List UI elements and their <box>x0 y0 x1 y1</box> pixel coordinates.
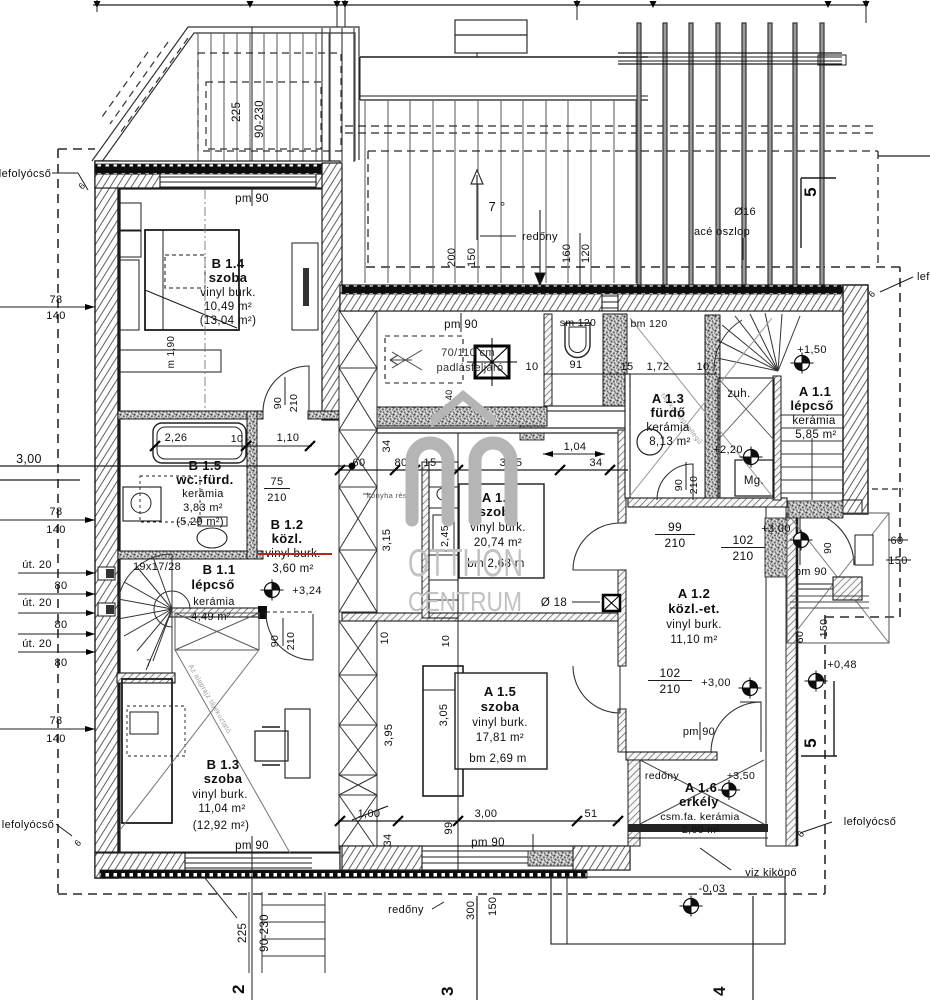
porch X diagonals <box>787 513 889 643</box>
svg-text:A 1.1: A 1.1 <box>799 384 831 399</box>
svg-text:90: 90 <box>272 397 284 409</box>
svg-text:10: 10 <box>697 361 710 373</box>
svg-text:78: 78 <box>50 715 63 727</box>
wall A bottom <box>340 846 630 870</box>
svg-text:lefolyócső: lefolyócső <box>844 816 896 828</box>
svg-text:bm 120: bm 120 <box>630 318 667 330</box>
steel column O18 <box>603 595 620 611</box>
dresser B1.4 <box>119 350 221 372</box>
svg-text:225: 225 <box>237 923 249 943</box>
wall B interior B1.5/B1.1 <box>118 551 263 559</box>
flue square <box>475 346 509 378</box>
svg-text:300: 300 <box>465 901 477 920</box>
svg-text:11,10 m²: 11,10 m² <box>670 634 717 646</box>
svg-text:m 1,90: m 1,90 <box>166 336 177 369</box>
pergola posts <box>637 23 824 285</box>
svg-text:B 1.4: B 1.4 <box>212 256 245 271</box>
svg-text:redőny: redőny <box>645 770 680 782</box>
svg-text:78: 78 <box>50 506 63 518</box>
svg-text:210: 210 <box>664 536 685 550</box>
washbasin B1.5 <box>123 487 161 521</box>
kitchen counter A1.4 <box>422 462 429 618</box>
svg-text:102: 102 <box>732 533 753 547</box>
svg-text:szoba: szoba <box>204 771 243 786</box>
svg-text:3,15: 3,15 <box>381 529 393 552</box>
wall B top <box>95 161 340 188</box>
svg-text:pm 90: pm 90 <box>471 837 505 849</box>
cabinet B1.3 east <box>285 709 310 778</box>
wall A1.2/balcony <box>626 752 717 760</box>
svg-text:210: 210 <box>267 492 286 504</box>
svg-text:Ø16: Ø16 <box>734 206 756 218</box>
door balcony arc <box>711 702 761 752</box>
balcony left wall <box>628 760 640 846</box>
wall A right outer <box>843 285 868 514</box>
svg-text:B 1.3: B 1.3 <box>207 757 240 772</box>
svg-text:padlásfeljáró: padlásfeljáró <box>437 362 504 374</box>
svg-text:csm.fa. kerámia: csm.fa. kerámia <box>660 811 739 823</box>
svg-text:3,00: 3,00 <box>475 808 498 820</box>
wall B interior bathroom/hall vertical <box>247 411 257 559</box>
balcony bottom rail thick <box>628 824 768 832</box>
svg-text:zuh.: zuh. <box>727 388 750 400</box>
fixtures B1.3 dashed <box>127 706 185 756</box>
svg-text:lef: lef <box>917 271 930 283</box>
A1.5 label frame <box>455 673 547 769</box>
middle terrace deck stripes <box>365 100 636 283</box>
svg-text:15: 15 <box>424 457 437 469</box>
svg-text:140: 140 <box>46 733 65 745</box>
svg-text:4: 4 <box>710 986 729 996</box>
svg-text:150: 150 <box>487 897 499 916</box>
svg-text:közl.: közl. <box>272 531 303 546</box>
svg-text:+3,00: +3,00 <box>701 677 731 689</box>
svg-text:7 °: 7 ° <box>488 199 505 214</box>
svg-text:B 1.1: B 1.1 <box>203 562 236 577</box>
middle terrace dashed outline <box>345 125 878 127</box>
svg-text:11,04 m²: 11,04 m² <box>198 803 245 815</box>
svg-text:(12,92 m²): (12,92 m²) <box>193 820 250 832</box>
middle terrace roof edge <box>360 56 648 58</box>
svg-text:kerámia: kerámia <box>792 415 836 427</box>
svg-text:10: 10 <box>526 361 539 373</box>
svg-text:70/110 cm: 70/110 cm <box>441 347 495 359</box>
svg-text:80: 80 <box>55 657 68 669</box>
short line right <box>878 155 930 157</box>
svg-text:80: 80 <box>55 580 68 592</box>
svg-text:Mg.: Mg. <box>744 475 764 487</box>
svg-text:(5,29 m²): (5,29 m²) <box>176 516 224 528</box>
stair B1.1 spiral fan <box>118 554 190 673</box>
wall A1.4/A1.2 vertical segments <box>618 430 626 523</box>
terrace B roof outline with slanted edge <box>92 27 359 163</box>
svg-text:210: 210 <box>288 394 300 413</box>
table B1.3 <box>255 731 288 761</box>
svg-text:90-230: 90-230 <box>254 100 266 138</box>
balcony X diagonals <box>640 760 764 824</box>
terrace B dashed inner outlines <box>102 38 341 151</box>
bed B1.4 <box>145 230 239 330</box>
terrace B right edge lines <box>322 28 354 162</box>
dashed closet B1.4 <box>165 255 205 288</box>
svg-text:34: 34 <box>590 457 603 469</box>
svg-text:út. 20: út. 20 <box>22 559 52 571</box>
svg-text:10: 10 <box>379 632 391 645</box>
svg-text:5: 5 <box>801 738 820 748</box>
svg-text:lefolyócső: lefolyócső <box>2 819 54 831</box>
top dimension line <box>93 4 868 6</box>
svg-text:viz kiköpő: viz kiköpő <box>745 867 797 879</box>
insulation strip bottom continuous <box>100 870 587 878</box>
plot boundary dashed line <box>58 148 95 150</box>
svg-text:80: 80 <box>55 619 68 631</box>
svg-text:99: 99 <box>668 520 682 534</box>
niche marks left wall <box>98 567 115 580</box>
A1.3 west wall line <box>625 374 630 498</box>
door A1.5 arc <box>573 666 620 713</box>
wall A1.3 bottom / A1.2 top <box>628 498 787 507</box>
svg-text:vinyl burk.: vinyl burk. <box>200 287 256 299</box>
svg-text:4,49 m²: 4,49 m² <box>191 611 231 623</box>
svg-text:3,95: 3,95 <box>383 724 395 747</box>
svg-text:75: 75 <box>271 476 284 488</box>
svg-text:szoba: szoba <box>209 270 248 285</box>
svg-text:kerámia: kerámia <box>182 488 224 500</box>
watermark logo OC <box>412 443 511 520</box>
svg-text:140: 140 <box>46 524 65 536</box>
svg-text:lépcső: lépcső <box>790 398 833 413</box>
svg-text:51: 51 <box>585 808 598 820</box>
svg-text:102: 102 <box>659 666 680 680</box>
watermark roof arrow <box>431 390 496 428</box>
exterior stairs bottom left <box>249 892 325 973</box>
svg-text:200: 200 <box>446 248 458 267</box>
svg-text:3: 3 <box>438 986 457 996</box>
svg-text:OTTHON: OTTHON <box>408 542 523 585</box>
desk B1.3 <box>122 679 172 823</box>
svg-text:A 1.2: A 1.2 <box>678 586 710 601</box>
party wall shaft with X bracing <box>339 310 377 850</box>
strike on 1,00 <box>352 806 388 820</box>
A1.4 label frame <box>459 484 544 578</box>
svg-text:91: 91 <box>570 359 583 371</box>
speckle block below WC <box>520 409 544 440</box>
svg-text:konyha rész: konyha rész <box>367 491 411 500</box>
wall A1.3/shower <box>705 315 720 500</box>
insulation strip B top <box>95 164 338 174</box>
svg-text:acé oszlop: acé oszlop <box>694 226 750 238</box>
svg-text:1,04: 1,04 <box>564 441 587 453</box>
toilet B1.5 <box>197 528 227 548</box>
window band B bottom <box>185 857 312 859</box>
wall B party right upper <box>322 163 342 420</box>
svg-text:pm 90: pm 90 <box>795 566 827 578</box>
terrace below balcony <box>551 877 785 944</box>
wall WC right speckled <box>603 314 627 406</box>
svg-text:60: 60 <box>891 535 904 547</box>
svg-text:15: 15 <box>621 361 634 373</box>
attic access dashed box <box>385 336 463 383</box>
svg-text:B 1.2: B 1.2 <box>271 517 304 532</box>
porch entry mat hatched <box>833 577 862 600</box>
svg-text:+3,00: +3,00 <box>761 523 791 535</box>
porch threshold rect <box>855 535 873 565</box>
bracket 5 top right <box>801 177 836 179</box>
void X over B1.1 <box>175 613 259 650</box>
bed axis dash-dot <box>204 190 206 408</box>
bottom dim line A <box>338 820 620 822</box>
svg-text:erkély: erkély <box>679 794 719 809</box>
svg-text:90: 90 <box>823 542 834 554</box>
svg-text:CENTRUM: CENTRUM <box>408 586 522 617</box>
wall inner face lines <box>118 188 120 853</box>
svg-text:8,13 m²: 8,13 m² <box>649 436 690 448</box>
wall WC bottom <box>544 406 627 411</box>
stair A1.1 spiral fan <box>714 313 800 371</box>
wall WC left thin <box>544 314 552 406</box>
svg-text:2,60 m²: 2,60 m² <box>682 824 720 836</box>
svg-text:vinyl burk.: vinyl burk. <box>666 619 722 631</box>
arrow 7 degrees slope <box>471 170 483 240</box>
svg-text:szoba: szoba <box>481 699 520 714</box>
porch speckle <box>788 501 843 518</box>
vertical dim line x458 <box>457 433 459 870</box>
svg-text:kerámia: kerámia <box>193 596 235 608</box>
chimney <box>455 20 527 35</box>
leader to 225 <box>205 878 237 918</box>
svg-text:fürdő: fürdő <box>651 405 686 420</box>
shower square <box>718 378 774 498</box>
svg-text:10,49 m²: 10,49 m² <box>204 301 252 313</box>
svg-text:90: 90 <box>673 479 685 491</box>
svg-text:34: 34 <box>382 834 394 847</box>
svg-text:2,26: 2,26 <box>165 432 188 444</box>
wall A1.4-A1.5 <box>342 613 626 621</box>
terrace B vertical deck stripes <box>198 33 355 161</box>
stair A1.1 straight treads <box>781 415 843 500</box>
svg-text:120: 120 <box>580 244 592 263</box>
svg-text:A 1.3: A 1.3 <box>652 391 684 406</box>
svg-text:225: 225 <box>231 102 243 122</box>
insulation strip A top <box>342 285 866 294</box>
svg-text:210: 210 <box>659 682 680 696</box>
diagonal lines A1.3 <box>630 318 772 496</box>
A1.5 bed <box>423 666 463 796</box>
svg-text:34: 34 <box>381 440 393 453</box>
svg-text:lépcső: lépcső <box>191 577 234 592</box>
svg-text:+2,20: +2,20 <box>713 444 743 456</box>
svg-text:Ø 18: Ø 18 <box>541 597 567 609</box>
svg-text:3,83 m²: 3,83 m² <box>183 502 223 514</box>
wall A1.2 right cavity <box>766 502 797 846</box>
svg-text:3,00: 3,00 <box>16 452 42 466</box>
svg-text:út. 20: út. 20 <box>22 638 52 650</box>
svg-text:5: 5 <box>801 187 820 197</box>
svg-text:150: 150 <box>888 555 907 567</box>
porch outline <box>787 513 889 643</box>
nightstands B1.4 <box>119 203 141 230</box>
svg-text:A 1.5: A 1.5 <box>484 684 516 699</box>
svg-text:210: 210 <box>285 632 297 651</box>
svg-text:5,85 m²: 5,85 m² <box>795 429 836 441</box>
svg-text:3,05: 3,05 <box>438 704 450 727</box>
svg-text:wc.-fürd.: wc.-fürd. <box>175 472 233 487</box>
svg-text:10: 10 <box>440 635 452 647</box>
svg-text:19x17/28: 19x17/28 <box>133 561 181 573</box>
wall B interior stairs/B1.3 <box>170 608 266 617</box>
toilet WC A <box>565 323 590 357</box>
svg-text:140: 140 <box>46 310 65 322</box>
svg-text:78: 78 <box>50 294 63 306</box>
wall B stairs bottom <box>117 673 175 683</box>
A1.4 north wall line <box>377 428 626 433</box>
svg-text:3,60 m²: 3,60 m² <box>272 563 313 575</box>
svg-text:90-230: 90-230 <box>259 914 271 952</box>
door B1.4 with arc <box>263 366 309 411</box>
svg-text:A 1.6: A 1.6 <box>685 780 717 795</box>
bathtub B1.5 <box>153 423 246 463</box>
door entry arc <box>800 511 854 565</box>
svg-text:7: 7 <box>146 658 151 668</box>
svg-text:10: 10 <box>231 433 243 445</box>
wall B bottom <box>95 853 340 878</box>
svg-text:-0,03: -0,03 <box>699 883 726 895</box>
door B1.3 arc <box>266 613 313 660</box>
wall A top <box>340 285 868 311</box>
pergola beam <box>618 52 842 54</box>
door A1.4 arc <box>573 523 620 570</box>
svg-text:út. 20: út. 20 <box>22 597 52 609</box>
window band B top <box>160 176 316 178</box>
svg-text:redőny: redőny <box>388 904 424 916</box>
svg-text:vinyl burk.: vinyl burk. <box>472 717 528 729</box>
svg-text:sm 120: sm 120 <box>560 317 597 329</box>
svg-text:160: 160 <box>561 244 573 263</box>
joint insulation band between corridor and A1.4 <box>377 407 547 426</box>
wall shower/stair <box>773 376 781 500</box>
svg-text:bm 2,69 m: bm 2,69 m <box>469 753 526 765</box>
wall B left outer <box>95 161 118 878</box>
svg-text:150: 150 <box>466 248 478 267</box>
svg-text:60: 60 <box>794 631 806 643</box>
svg-text:1,72: 1,72 <box>647 361 670 373</box>
svg-text:kerámia: kerámia <box>646 422 690 434</box>
main dim line A <box>338 469 628 471</box>
svg-text:közl.-et.: közl.-et. <box>668 601 720 616</box>
svg-text:lefolyócső: lefolyócső <box>0 168 51 180</box>
svg-text:(13,04 m²): (13,04 m²) <box>200 315 257 327</box>
svg-text:+3,50: +3,50 <box>727 770 755 782</box>
porch steps <box>790 595 869 597</box>
bracket 5 right <box>833 681 835 756</box>
svg-text:210: 210 <box>688 476 700 495</box>
svg-text:1,10: 1,10 <box>277 432 300 444</box>
svg-text:+3,24: +3,24 <box>292 585 322 597</box>
svg-text:+0,48: +0,48 <box>827 659 857 671</box>
svg-text:150: 150 <box>818 619 830 638</box>
svg-text:2: 2 <box>229 984 248 994</box>
svg-text:17,81 m²: 17,81 m² <box>476 732 524 744</box>
svg-text:210: 210 <box>732 549 753 563</box>
door A1.3 arc <box>657 464 693 500</box>
wardrobe B1.4 east <box>292 243 318 330</box>
dashed fixtures B1.5 <box>140 476 200 522</box>
svg-text:90: 90 <box>269 635 281 647</box>
washing machine Mg <box>735 460 773 496</box>
svg-text:pm 90: pm 90 <box>683 726 715 738</box>
wall B interior B1.4/B1.5 <box>118 411 263 419</box>
svg-text:99: 99 <box>443 822 455 835</box>
svg-text:vinyl burk.: vinyl burk. <box>192 789 248 801</box>
diagonal void lines B1.3 <box>175 650 290 853</box>
